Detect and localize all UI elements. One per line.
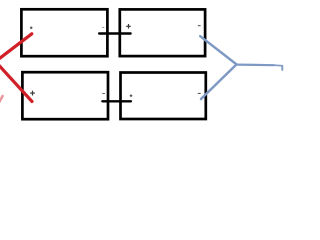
label B2 minus: [198, 25, 201, 27]
label B1 plus: [30, 27, 33, 30]
battery B3 (bottom-left): [22, 72, 108, 119]
label B3 plus: [30, 91, 35, 96]
wire red positive upper (B1+ down-left off canvas): [0, 34, 32, 60]
wire blue negative lower (B4- to Y junction): [201, 64, 237, 99]
label B1 minus: [102, 26, 104, 28]
series link bar top (B1- to B2+): [99, 32, 130, 34]
wire blue negative upper (B2- to Y junction): [200, 36, 236, 64]
series link bar bottom (B3- to B4+): [102, 100, 130, 102]
label B3 minus: [102, 93, 105, 95]
wire blue horizontal lead: [237, 63, 275, 66]
wire red positive lower (off canvas up to B3+): [0, 64, 32, 101]
label B4 minus: [198, 92, 201, 94]
battery B4 (bottom-right): [121, 73, 206, 120]
label B4 plus: [130, 94, 133, 97]
wire blue horizontal lead thin end: [274, 64, 282, 67]
wire red stub at left edge: [0, 96, 3, 103]
wire blue end tick: [281, 66, 283, 70]
battery B2 (top-right): [120, 9, 205, 56]
battery B1 (top-left): [21, 9, 107, 56]
label B2 plus: [126, 24, 131, 29]
